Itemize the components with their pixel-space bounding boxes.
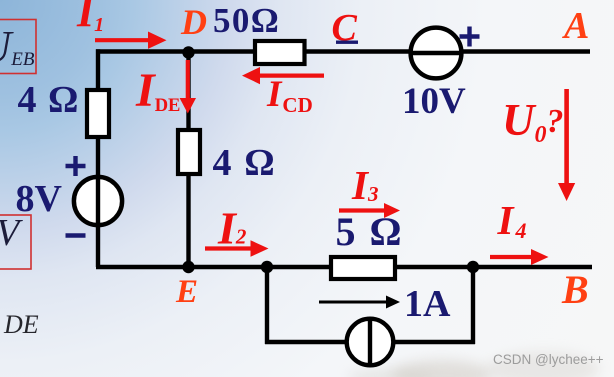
- svg-text:4 Ω: 4 Ω: [18, 79, 80, 121]
- svg-text:I2: I2: [217, 203, 247, 254]
- label I2: [217, 203, 247, 254]
- node junction dot loop right: [467, 261, 479, 273]
- label C: [332, 7, 359, 49]
- wire loop right vertical: [471, 265, 475, 344]
- current arrow I2: [205, 240, 269, 257]
- label D: [180, 2, 207, 42]
- svg-text:50Ω: 50Ω: [213, 1, 280, 40]
- svg-text:DE: DE: [3, 310, 39, 339]
- svg-text:CSDN @lychee++: CSDN @lychee++: [493, 352, 604, 367]
- label V boxed left: [0, 212, 31, 269]
- svg-text:E: E: [175, 274, 198, 310]
- voltage source U1 10V circle: [409, 28, 463, 79]
- current arrow I4: [490, 249, 549, 265]
- current arrow IDE: [180, 60, 196, 114]
- label 4ohm left: [18, 79, 80, 121]
- background cloud 2: [487, 352, 599, 377]
- node junction dot loop left: [261, 261, 273, 273]
- svg-text:8V: 8V: [16, 178, 63, 220]
- plus sign of 8V source: [66, 156, 86, 176]
- wire left branch vertical: [96, 49, 100, 267]
- wire loop bottom: [265, 340, 475, 344]
- svg-text:ICD: ICD: [266, 74, 313, 117]
- wire bottom E-B: [96, 265, 592, 269]
- label DE italic bottom-left: [3, 310, 39, 339]
- background cloud 3: [348, 369, 432, 377]
- label I3: [351, 162, 378, 208]
- background cloud 1: [392, 360, 492, 377]
- voltage source U2 8V circle: [74, 176, 122, 226]
- svg-text:4 Ω: 4 Ω: [213, 142, 277, 184]
- label A: [562, 5, 589, 47]
- label UEB boxed top-left: [0, 20, 36, 74]
- plus sign of 10V source: [460, 27, 480, 47]
- label 4ohm middle: [213, 142, 277, 184]
- resistor R1 4ohm left: [87, 90, 109, 137]
- label 10V: [402, 81, 466, 122]
- svg-text:10V: 10V: [402, 81, 466, 122]
- current arrow I1: [95, 32, 167, 49]
- label U0 question: [502, 95, 564, 148]
- svg-text:U0?: U0?: [502, 95, 564, 148]
- voltage arrow U0 down: [558, 89, 575, 201]
- node E junction dot: [182, 261, 194, 273]
- svg-text:B: B: [561, 267, 589, 312]
- svg-text:I1: I1: [76, 0, 104, 36]
- resistor R4 5ohm bottom: [331, 257, 395, 279]
- label 8V: [16, 178, 63, 220]
- svg-text:A: A: [562, 5, 589, 47]
- node D junction dot: [182, 46, 194, 58]
- label B: [561, 267, 589, 312]
- svg-text:5 Ω: 5 Ω: [336, 209, 404, 254]
- svg-text:I3: I3: [351, 162, 378, 208]
- wire loop left vertical: [265, 265, 269, 344]
- current arrow 1A black: [319, 296, 400, 309]
- wire top A-C-D: [96, 49, 590, 53]
- label E: [175, 274, 198, 310]
- svg-text:IDE: IDE: [135, 64, 180, 117]
- current arrow I3: [339, 203, 400, 218]
- resistor R2 4ohm middle: [178, 130, 200, 174]
- svg-text:1A: 1A: [404, 283, 451, 325]
- svg-text:D: D: [180, 2, 207, 42]
- label ICD: [266, 74, 313, 117]
- current arrow ICD: [242, 67, 324, 84]
- label I4: [497, 197, 527, 243]
- svg-text:UEB: UEB: [0, 21, 35, 72]
- resistor R3 50ohm top: [255, 41, 305, 64]
- label IDE: [135, 64, 180, 117]
- label 50ohm: [213, 1, 280, 40]
- label 1A: [404, 283, 451, 325]
- wire D-E vertical: [186, 52, 190, 268]
- label I1: [76, 0, 104, 36]
- current source I5 1A circle: [347, 317, 394, 367]
- watermark CSDN: [493, 352, 604, 367]
- minus sign of 8V source: [66, 233, 86, 237]
- label 5ohm: [336, 209, 404, 254]
- svg-text:I4: I4: [497, 197, 527, 243]
